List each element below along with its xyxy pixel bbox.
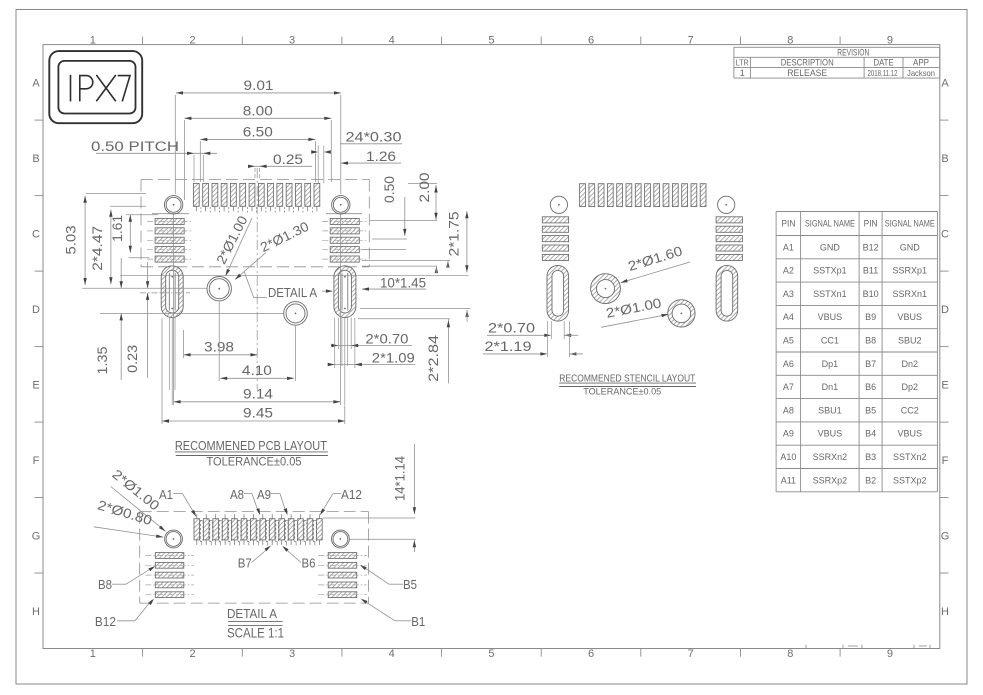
svg-text:8.00: 8.00 xyxy=(243,103,273,118)
svg-text:SBU2: SBU2 xyxy=(898,336,922,346)
dim 0.25 xyxy=(252,165,312,167)
svg-text:Dn2: Dn2 xyxy=(902,359,919,369)
svg-text:VBUS: VBUS xyxy=(898,312,923,322)
svg-text:1: 1 xyxy=(90,648,96,660)
svg-text:SSRXn2: SSRXn2 xyxy=(813,452,848,462)
svg-text:B2: B2 xyxy=(865,475,876,485)
svg-text:1.26: 1.26 xyxy=(366,149,396,164)
svg-text:2: 2 xyxy=(189,35,195,47)
svg-text:CC1: CC1 xyxy=(821,336,839,346)
svg-text:9.45: 9.45 xyxy=(243,406,273,421)
svg-text:4.10: 4.10 xyxy=(242,363,272,378)
svg-text:1: 1 xyxy=(740,68,745,78)
svg-text:B7: B7 xyxy=(865,359,876,369)
svg-text:TOLERANCE±0.05: TOLERANCE±0.05 xyxy=(583,387,661,398)
svg-text:2*0.70: 2*0.70 xyxy=(365,331,408,346)
PCB layout: right through-hole xyxy=(332,196,350,214)
svg-text:10*1.45: 10*1.45 xyxy=(380,276,426,291)
svg-text:6: 6 xyxy=(588,648,594,660)
stencil: right hole xyxy=(718,196,735,213)
svg-text:A5: A5 xyxy=(783,336,794,346)
svg-text:F: F xyxy=(33,455,40,467)
svg-text:A12: A12 xyxy=(341,487,362,502)
svg-text:D: D xyxy=(32,304,40,316)
svg-text:2*0.70: 2*0.70 xyxy=(488,321,535,336)
dim 2*4.47 xyxy=(110,210,112,284)
stencil: left hole xyxy=(550,196,567,213)
svg-text:9.14: 9.14 xyxy=(243,386,274,401)
dim 1.35 xyxy=(120,258,122,288)
hidden pad stubs xyxy=(200,207,202,213)
stencil: right oval xyxy=(716,265,738,321)
svg-text:A10: A10 xyxy=(780,452,796,462)
svg-text:2*1.75: 2*1.75 xyxy=(447,211,462,256)
svg-text:9.01: 9.01 xyxy=(244,78,274,93)
svg-text:PIN: PIN xyxy=(864,219,878,229)
svg-text:DETAIL A: DETAIL A xyxy=(227,606,277,621)
svg-text:A1: A1 xyxy=(783,242,794,252)
svg-text:9: 9 xyxy=(887,648,893,660)
PCB layout: left oval mounting slot xyxy=(161,266,183,318)
svg-text:B9: B9 xyxy=(865,312,876,322)
stencil dim 2*0.70 xyxy=(487,334,547,336)
svg-text:B11: B11 xyxy=(863,266,878,276)
svg-text:3: 3 xyxy=(289,648,295,660)
svg-text:SIGNAL NAME: SIGNAL NAME xyxy=(885,219,935,229)
svg-text:A8: A8 xyxy=(230,487,244,502)
svg-text:A9: A9 xyxy=(783,429,794,439)
svg-text:A7: A7 xyxy=(783,382,794,392)
stencil leader 2*D1.60 xyxy=(621,262,691,283)
left extension lines xyxy=(82,287,207,289)
svg-text:A9: A9 xyxy=(257,487,271,502)
stencil: top pad row xyxy=(580,184,586,207)
svg-text:H: H xyxy=(32,606,40,618)
svg-text:DATE: DATE xyxy=(874,58,894,68)
slot extension lines below xyxy=(168,318,170,391)
svg-text:A4: A4 xyxy=(783,312,794,322)
svg-text:B5: B5 xyxy=(403,577,417,592)
stencil: left side pads xyxy=(542,217,568,223)
svg-text:1.35: 1.35 xyxy=(95,347,110,375)
svg-text:VBUS: VBUS xyxy=(898,429,923,439)
PCB layout: shell lip lines xyxy=(152,213,189,215)
PCB layout: connector body dashed outline xyxy=(141,179,369,181)
detail A: right side pads xyxy=(328,553,357,559)
detail A: left side pads xyxy=(155,553,184,559)
svg-text:SIGNAL NAME: SIGNAL NAME xyxy=(805,219,855,229)
PCB layout: vertical centerline xyxy=(256,168,258,390)
svg-text:G: G xyxy=(941,530,950,542)
svg-text:DESCRIPTION: DESCRIPTION xyxy=(781,58,834,68)
svg-text:0.23: 0.23 xyxy=(125,345,140,373)
dim 2*2.84 xyxy=(360,307,471,309)
svg-text:PIN: PIN xyxy=(781,219,795,229)
svg-text:A: A xyxy=(32,77,40,89)
svg-text:SBU1: SBU1 xyxy=(818,405,842,415)
svg-text:B8: B8 xyxy=(865,336,876,346)
pin signal table xyxy=(776,211,937,213)
svg-text:B6: B6 xyxy=(865,382,876,392)
dim 2.00 (right top) xyxy=(370,220,437,222)
svg-text:B5: B5 xyxy=(865,405,876,415)
stencil dim 2*1.19 xyxy=(483,353,543,355)
svg-text:SSRXp1: SSRXp1 xyxy=(893,266,928,276)
PCB layout: hole B (2xD1.30) xyxy=(284,302,308,326)
svg-text:3: 3 xyxy=(289,35,295,47)
svg-text:B12: B12 xyxy=(95,614,116,629)
sheet inner border xyxy=(43,45,940,649)
svg-text:B6: B6 xyxy=(302,556,316,571)
dim 9.01 xyxy=(176,92,341,94)
dim 9.14 xyxy=(174,401,341,403)
svg-text:RELEASE: RELEASE xyxy=(787,68,827,78)
svg-text:8: 8 xyxy=(787,35,793,47)
svg-text:B4: B4 xyxy=(865,429,876,439)
svg-text:A11: A11 xyxy=(781,475,796,485)
detail A: pad row (A pads) xyxy=(194,519,200,540)
stencil slot extension lines xyxy=(546,321,548,357)
svg-text:VBUS: VBUS xyxy=(818,312,843,322)
PCB layout: right side pad stack xyxy=(330,218,359,224)
svg-text:A2: A2 xyxy=(783,266,794,276)
svg-text:B8: B8 xyxy=(98,577,112,592)
svg-text:5.03: 5.03 xyxy=(63,226,78,255)
svg-text:B: B xyxy=(32,153,39,165)
svg-text:SSTXn1: SSTXn1 xyxy=(813,289,847,299)
svg-text:TOLERANCE±0.05: TOLERANCE±0.05 xyxy=(207,456,302,468)
stencil leader 2*D1.00 xyxy=(601,314,669,327)
leader 2*D1.00 xyxy=(226,218,253,276)
svg-text:GND: GND xyxy=(820,242,841,252)
dim 3.98 xyxy=(184,354,258,356)
svg-text:Dn1: Dn1 xyxy=(822,382,839,392)
svg-text:9: 9 xyxy=(887,35,893,47)
svg-text:SCALE 1:1: SCALE 1:1 xyxy=(227,624,284,640)
svg-text:2*1.19: 2*1.19 xyxy=(485,339,532,354)
detail A: hidden B pads xyxy=(200,520,203,541)
detail A leader 2*D1.00 xyxy=(111,487,166,532)
dim 9.45 xyxy=(162,420,345,422)
PCB layout: hole A (2xD1.00) xyxy=(207,277,231,301)
svg-text:A1: A1 xyxy=(159,487,173,502)
IPX7 logo xyxy=(49,51,142,123)
svg-text:4: 4 xyxy=(389,35,395,47)
svg-text:G: G xyxy=(32,530,41,542)
svg-text:C: C xyxy=(32,228,40,240)
svg-text:1.61: 1.61 xyxy=(110,215,125,242)
svg-text:B10: B10 xyxy=(863,289,879,299)
svg-text:B12: B12 xyxy=(863,242,879,252)
svg-text:GND: GND xyxy=(900,242,921,252)
svg-text:SSTXp2: SSTXp2 xyxy=(893,475,927,485)
detail A leader 2*D0.80 xyxy=(94,527,163,537)
right side extension lines xyxy=(362,248,406,250)
svg-text:0.25: 0.25 xyxy=(273,152,303,167)
svg-text:C: C xyxy=(941,228,949,240)
svg-text:7: 7 xyxy=(688,648,694,660)
svg-text:2*1.09: 2*1.09 xyxy=(372,351,415,366)
svg-text:6: 6 xyxy=(588,35,594,47)
svg-text:Dp1: Dp1 xyxy=(822,359,839,369)
svg-text:B1: B1 xyxy=(411,614,425,629)
svg-text:7: 7 xyxy=(688,35,694,47)
dim 8.00 xyxy=(184,117,331,119)
dim 2*1.75 xyxy=(466,211,468,272)
svg-text:0.50 PITCH: 0.50 PITCH xyxy=(91,139,179,154)
svg-text:SSRXn1: SSRXn1 xyxy=(893,289,928,299)
dim 2*1.09 xyxy=(328,364,415,366)
svg-text:REVISION: REVISION xyxy=(837,47,869,57)
svg-text:D: D xyxy=(941,304,949,316)
dim 4.10 xyxy=(220,377,294,379)
svg-text:6.50: 6.50 xyxy=(243,125,273,140)
detail A: right hole xyxy=(332,530,350,548)
PCB layout: left side pad stack xyxy=(155,218,184,224)
svg-text:2*4.47: 2*4.47 xyxy=(90,226,105,271)
svg-text:5: 5 xyxy=(488,648,494,660)
svg-text:E: E xyxy=(941,379,948,391)
svg-text:B: B xyxy=(941,153,948,165)
svg-text:0.50: 0.50 xyxy=(382,176,397,203)
leader 2*D1.30 xyxy=(235,253,266,280)
detail A: dashed body outline xyxy=(140,511,369,513)
svg-text:Jackson: Jackson xyxy=(907,68,935,78)
svg-text:RECOMMENED PCB LAYOUT: RECOMMENED PCB LAYOUT xyxy=(175,439,327,453)
svg-text:VBUS: VBUS xyxy=(818,429,843,439)
svg-text:14*1.14: 14*1.14 xyxy=(393,456,408,501)
svg-text:2*2.84: 2*2.84 xyxy=(426,334,441,382)
svg-text:B7: B7 xyxy=(238,556,252,571)
PCB layout: left through-hole xyxy=(164,196,182,214)
stencil: left oval xyxy=(547,265,569,321)
dim 2*0.70 (pcb) xyxy=(331,345,412,347)
svg-text:A8: A8 xyxy=(783,405,794,415)
svg-text:SSTXn2: SSTXn2 xyxy=(893,452,927,462)
bottom centering marks xyxy=(842,645,844,649)
svg-text:B3: B3 xyxy=(865,452,876,462)
svg-text:SSTXp1: SSTXp1 xyxy=(813,266,847,276)
svg-text:A6: A6 xyxy=(783,359,794,369)
svg-text:A: A xyxy=(941,77,949,89)
svg-text:LTR: LTR xyxy=(736,58,749,68)
svg-text:2018.11.12: 2018.11.12 xyxy=(868,68,898,78)
PCB layout: right oval mounting slot xyxy=(334,266,356,318)
stencil: hole 2*D1.00 xyxy=(668,300,695,327)
svg-text:F: F xyxy=(942,455,949,467)
svg-text:SSRXp2: SSRXp2 xyxy=(813,475,848,485)
svg-text:DETAIL A: DETAIL A xyxy=(268,285,317,300)
svg-text:CC2: CC2 xyxy=(901,405,919,415)
dim 6.50 xyxy=(200,138,315,140)
leader DETAIL A xyxy=(244,272,254,298)
dim 0.50 (right top) xyxy=(372,238,407,240)
svg-text:APP: APP xyxy=(913,58,929,68)
dim 1.61 xyxy=(129,215,131,253)
svg-text:A3: A3 xyxy=(783,289,794,299)
svg-text:RECOMMENED STENCIL LAYOUT: RECOMMENED STENCIL LAYOUT xyxy=(559,372,695,384)
svg-text:Dp2: Dp2 xyxy=(902,382,919,392)
svg-text:1: 1 xyxy=(90,35,96,47)
stencil: hole 2*D1.60 xyxy=(591,274,621,304)
svg-text:4: 4 xyxy=(389,648,395,660)
svg-text:H: H xyxy=(941,606,949,618)
svg-text:E: E xyxy=(32,379,39,391)
revision table xyxy=(734,46,940,48)
svg-text:24*0.30: 24*0.30 xyxy=(346,130,402,145)
svg-text:8: 8 xyxy=(787,648,793,660)
dim 5.03 xyxy=(84,196,86,285)
dim 0.23 xyxy=(147,262,149,288)
svg-text:5: 5 xyxy=(488,35,494,47)
detail A: left hole xyxy=(165,530,183,548)
svg-text:2: 2 xyxy=(189,648,195,660)
PCB layout: top SMT pad row xyxy=(193,183,199,206)
svg-text:2.00: 2.00 xyxy=(417,173,432,203)
stencil: right side pads xyxy=(716,217,742,223)
